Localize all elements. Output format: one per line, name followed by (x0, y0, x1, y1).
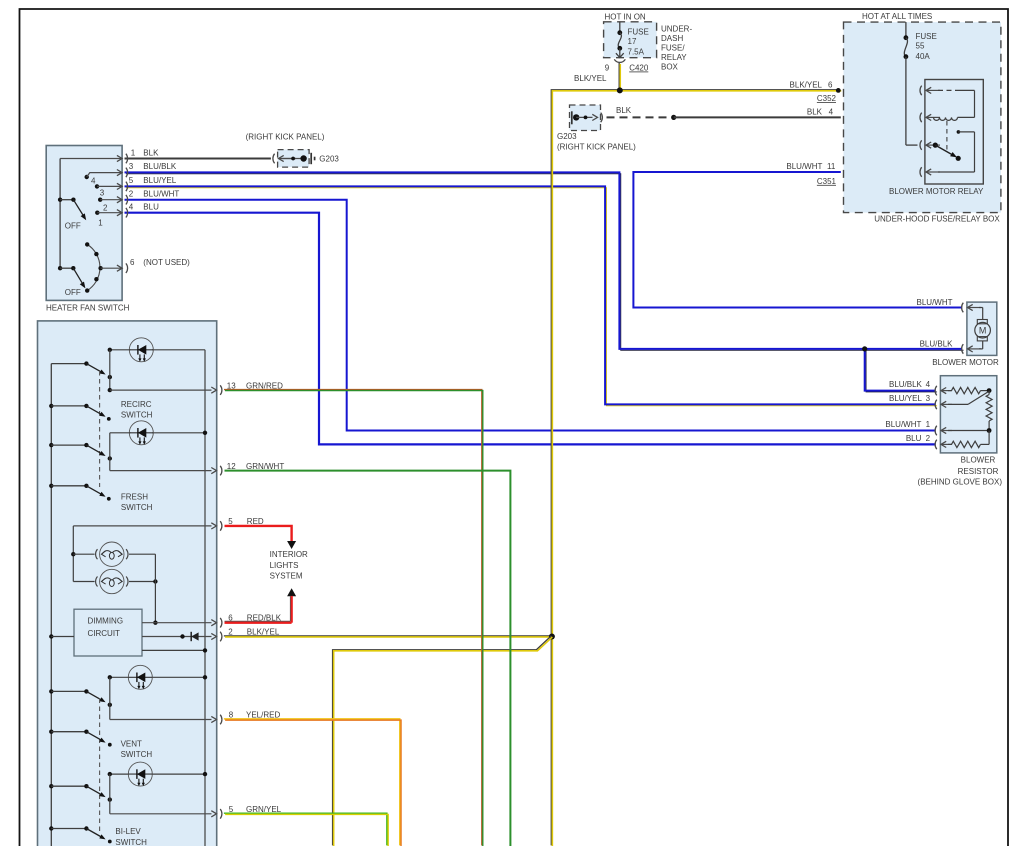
svg-text:SYSTEM: SYSTEM (270, 571, 303, 580)
VENT link vertical (109, 677, 111, 719)
svg-text:RECIRC: RECIRC (121, 400, 152, 409)
dimming out pin2 with diode (142, 636, 212, 638)
panel pin connector (220, 618, 222, 628)
switch wiper arm upper (73, 200, 84, 217)
LED D2 (129, 421, 153, 445)
svg-text:INTERIOR: INTERIOR (270, 550, 308, 559)
svg-text:BLOWER MOTOR: BLOWER MOTOR (932, 358, 999, 367)
svg-text:4: 4 (91, 177, 96, 186)
blower resistor box (940, 376, 996, 453)
svg-text:RED: RED (247, 517, 264, 526)
svg-text:(BEHIND GLOVE BOX): (BEHIND GLOVE BOX) (918, 478, 1003, 487)
relay row2 connector (920, 113, 922, 123)
connector (126, 208, 128, 218)
svg-text:GRN/RED: GRN/RED (246, 381, 283, 390)
connector after G203 (601, 113, 603, 123)
ground G203 wire (282, 158, 304, 160)
lamp L2 (96, 569, 128, 593)
relay row1 connector (920, 86, 922, 96)
svg-text:BLK/YEL: BLK/YEL (574, 74, 607, 83)
wire BLU/BLK branch to resistor pin4 (866, 350, 937, 392)
svg-text:5: 5 (229, 805, 234, 814)
svg-text:5: 5 (129, 176, 134, 185)
RECIRC link vertical (109, 350, 111, 390)
svg-text:BLU: BLU (143, 203, 159, 212)
relay row4 connector (920, 167, 922, 177)
svg-text:(RIGHT KICK PANEL): (RIGHT KICK PANEL) (246, 133, 325, 142)
svg-text:FRESH: FRESH (121, 493, 148, 502)
svg-text:12: 12 (227, 462, 236, 471)
svg-text:C351: C351 (817, 177, 837, 186)
lamp L1 (96, 542, 128, 566)
fuse 17 symbol (619, 22, 621, 33)
BI-LEV switch gang2 (49, 826, 53, 830)
connector (126, 182, 128, 192)
svg-text:HOT IN ON: HOT IN ON (605, 12, 646, 21)
blower motor box (967, 302, 997, 355)
lamp circuit left vertical (72, 526, 74, 582)
wire BLU/WHT pin2 to resistor pin1 (125, 200, 936, 431)
svg-text:40A: 40A (916, 52, 931, 61)
svg-text:5: 5 (228, 517, 233, 526)
svg-text:2: 2 (228, 628, 233, 637)
svg-text:4: 4 (926, 380, 931, 389)
svg-text:YEL/RED: YEL/RED (246, 711, 280, 720)
heater control panel box (38, 321, 217, 846)
wire BLK/YEL diagonal branch (333, 636, 552, 846)
pin5 GRN/YEL line (110, 813, 212, 815)
wire BLK/YEL fuse17 down (618, 63, 620, 90)
svg-text:11: 11 (827, 162, 836, 171)
fuse 55 symbol (905, 22, 907, 38)
wire GRN/RED pin13 (224, 390, 482, 846)
under-dash fuse/relay box (fuse 17) (604, 22, 657, 58)
VENT switch gang2 (49, 730, 53, 734)
svg-text:OFF: OFF (65, 221, 81, 230)
FRESH link vertical (109, 433, 111, 471)
svg-text:9: 9 (605, 64, 610, 73)
svg-text:C420: C420 (629, 64, 649, 73)
panel pin connector (220, 632, 222, 642)
svg-text:OFF: OFF (65, 288, 81, 297)
blower motor internal wiring (979, 307, 983, 309)
switch wiper arm lower (73, 268, 83, 285)
svg-text:HEATER FAN SWITCH: HEATER FAN SWITCH (46, 303, 130, 312)
svg-text:UNDER-HOOD FUSE/RELAY BOX: UNDER-HOOD FUSE/RELAY BOX (874, 215, 1000, 224)
wire BLK to relay pin4 (674, 116, 841, 118)
svg-text:4: 4 (129, 203, 134, 212)
LED D4 (128, 762, 152, 786)
svg-text:CIRCUIT: CIRCUIT (88, 629, 121, 638)
lamp L1 circuit (73, 553, 94, 555)
svg-text:SWITCH: SWITCH (121, 750, 153, 759)
svg-text:1: 1 (926, 420, 931, 429)
svg-text:FUSE: FUSE (916, 32, 937, 41)
junction BLK/YEL lower (549, 634, 555, 640)
VENT switch gang1 (49, 689, 53, 693)
panel pin connector (220, 809, 222, 819)
arrow from interior lights system (287, 588, 296, 596)
wire BLU/YEL pin5 (126, 188, 937, 406)
svg-text:BLU/BLK: BLU/BLK (920, 339, 954, 348)
svg-text:BLK: BLK (143, 148, 159, 157)
svg-text:1: 1 (131, 148, 136, 157)
switch contact 1 (95, 211, 99, 215)
resistor connectors (935, 386, 937, 396)
connector C420 cup (614, 59, 625, 62)
svg-text:BLU/WHT: BLU/WHT (917, 298, 953, 307)
svg-text:BLK/YEL: BLK/YEL (790, 81, 823, 90)
svg-text:BLOWER: BLOWER (961, 455, 996, 464)
connector (126, 195, 128, 205)
svg-text:8: 8 (229, 711, 234, 720)
svg-text:BLU/WHT: BLU/WHT (786, 162, 822, 171)
svg-text:FUSE/: FUSE/ (661, 44, 685, 53)
svg-text:1: 1 (98, 219, 103, 228)
panel right vertical (204, 350, 206, 846)
svg-text:GRN/YEL: GRN/YEL (246, 805, 282, 814)
svg-text:G203: G203 (557, 132, 577, 141)
bus to dimming circuit (49, 634, 53, 638)
svg-text:HOT AT ALL TIMES: HOT AT ALL TIMES (862, 12, 932, 21)
svg-text:BLU: BLU (906, 434, 922, 443)
svg-text:BI-LEV: BI-LEV (115, 827, 141, 836)
ground G203 box (570, 105, 601, 131)
pin12 line (110, 470, 212, 472)
svg-text:6: 6 (828, 81, 833, 90)
switch wiper link upper (60, 199, 73, 201)
fuse 55 feed to relay (906, 144, 918, 146)
pin8 line (110, 719, 212, 721)
svg-text:SWITCH: SWITCH (121, 411, 153, 420)
wire YEL/RED pin8 (224, 719, 400, 846)
svg-text:13: 13 (227, 381, 236, 390)
BI-LEV switch gang1 (49, 784, 53, 788)
junction BLK/YEL top (617, 87, 623, 93)
blower motor relay box (925, 80, 983, 185)
wire RED pin5 to interior lights (225, 526, 292, 542)
resistor row3 link (948, 403, 968, 405)
switch common dot upper (58, 198, 62, 202)
panel pin connector (220, 466, 222, 476)
svg-text:G203: G203 (319, 154, 339, 163)
wire GRN/YEL pin5 lower (224, 813, 387, 845)
connector (126, 168, 128, 178)
junction dot BLK/YEL at relay wire (836, 88, 841, 93)
svg-text:BLK: BLK (616, 106, 632, 115)
switch feed line pin1 (60, 158, 122, 160)
dimming circuit box (74, 609, 142, 656)
junction BLK (671, 115, 676, 120)
relay contact (957, 130, 961, 134)
switch bus vertical (59, 159, 61, 269)
svg-text:LIGHTS: LIGHTS (270, 561, 299, 570)
RECIRC switch gang1 (51, 363, 86, 365)
svg-text:BLU/BLK: BLU/BLK (889, 380, 923, 389)
LED D3 (128, 665, 152, 689)
svg-text:FUSE: FUSE (628, 28, 649, 37)
LED D3 circuit (110, 676, 129, 678)
svg-text:4: 4 (829, 108, 834, 117)
relay armature (933, 143, 938, 148)
panel bus vertical (50, 364, 52, 846)
switch contact arc lower (87, 244, 100, 290)
wire BLU/WHT relay pin11 to blower motor (633, 172, 962, 308)
LED D1 circuit (110, 349, 131, 351)
switch contact 2 (98, 198, 102, 202)
svg-text:2: 2 (926, 434, 931, 443)
switch contact 4 (85, 175, 89, 179)
under-hood fuse/relay box (844, 22, 1001, 213)
svg-text:SWITCH: SWITCH (115, 838, 147, 846)
svg-text:2: 2 (103, 204, 108, 213)
wire BLK/YEL left branch down page (551, 90, 619, 846)
dimming out pin6 (142, 622, 212, 624)
svg-text:(RIGHT KICK PANEL): (RIGHT KICK PANEL) (557, 142, 636, 151)
wire BLK/YEL junction to relay pin6 (619, 89, 840, 91)
resistor R3 row2 (948, 443, 952, 445)
svg-text:RESISTOR: RESISTOR (958, 467, 999, 476)
svg-text:BLU/YEL: BLU/YEL (143, 176, 176, 185)
svg-text:BLU/WHT: BLU/WHT (143, 190, 179, 199)
relay mechanical link (946, 121, 948, 150)
svg-text:BLU/BLK: BLU/BLK (143, 162, 177, 171)
mech link RECIRC/FRESH (99, 371, 101, 487)
svg-text:BLU/YEL: BLU/YEL (889, 394, 922, 403)
svg-text:BOX: BOX (661, 63, 679, 72)
ground G203 box (pin 1) (278, 150, 310, 168)
FRESH switch gang2 (49, 484, 53, 488)
resistor row1 link (948, 430, 989, 432)
lamp L2 circuit (73, 581, 94, 583)
switch lower contact dots (85, 242, 89, 246)
svg-text:DIMMING: DIMMING (88, 616, 124, 625)
dimming out lower (142, 649, 205, 651)
switch common dot lower (58, 266, 62, 270)
connector (126, 154, 128, 164)
motor M1 brushes (977, 320, 987, 324)
ground G203 bar (310, 153, 312, 164)
svg-text:6: 6 (228, 613, 233, 622)
svg-text:UNDER-: UNDER- (661, 25, 692, 34)
svg-text:3: 3 (926, 394, 931, 403)
BI-LEV link vertical (109, 774, 111, 814)
wire RED/BLK pin6 (290, 596, 292, 623)
svg-text:2: 2 (129, 190, 134, 199)
connector at G203 (273, 154, 275, 164)
svg-text:3: 3 (129, 162, 134, 171)
svg-text:VENT: VENT (121, 739, 142, 748)
ground G203 symbol (571, 111, 573, 124)
RECIRC switch gang2 (49, 404, 53, 408)
LED D1 (129, 338, 153, 362)
svg-text:BLOWER MOTOR RELAY: BLOWER MOTOR RELAY (889, 187, 984, 196)
svg-text:7.5A: 7.5A (628, 48, 645, 57)
switch wiper link lower (60, 267, 73, 269)
svg-text:55: 55 (916, 42, 925, 51)
ground G203 arrow (279, 158, 296, 160)
wire BLK/YEL to control panel pin2 (224, 635, 551, 637)
wire GRN/WHT pin12 (225, 471, 511, 846)
FRESH switch gang1 (49, 443, 53, 447)
wire BLU pin4 to resistor pin2 (125, 213, 936, 445)
panel pin connector (220, 385, 222, 395)
wire BLU/BLK pin3 (126, 174, 964, 351)
mech link VENT/BI-LEV (99, 699, 101, 834)
heater fan switch box (46, 146, 122, 301)
panel pin connector (220, 715, 222, 725)
panel pin connector (220, 521, 222, 531)
connector (126, 263, 128, 273)
svg-text:RED/BLK: RED/BLK (247, 613, 282, 622)
svg-text:C352: C352 (817, 94, 837, 103)
wire BLK pin1 to G203 (125, 158, 271, 160)
svg-text:3: 3 (100, 189, 105, 198)
svg-text:(NOT USED): (NOT USED) (143, 258, 190, 267)
switch contact 3 (95, 184, 99, 188)
svg-text:BLK/YEL: BLK/YEL (247, 628, 280, 637)
LED D2 circuit (110, 432, 131, 434)
LED D4 circuit (110, 773, 129, 775)
svg-text:M: M (979, 326, 987, 336)
resistor R1 row4 (948, 390, 952, 392)
wire BLK ground G203 dashed (607, 116, 669, 118)
svg-text:BLK: BLK (807, 108, 823, 117)
svg-text:GRN/WHT: GRN/WHT (246, 462, 284, 471)
relay coil (934, 117, 958, 120)
pin5 RED line (73, 525, 211, 527)
svg-text:SWITCH: SWITCH (121, 503, 153, 512)
svg-text:17: 17 (628, 37, 637, 46)
blower motor connectors (962, 303, 964, 313)
resistor vertical R2 (988, 391, 990, 395)
arrow into interior lights system (287, 541, 296, 549)
switch pin6 line (101, 267, 122, 269)
relay row3 connector (920, 140, 922, 150)
svg-text:6: 6 (130, 258, 135, 267)
relay coil circuit top (938, 89, 957, 91)
svg-text:BLU/WHT: BLU/WHT (885, 420, 921, 429)
svg-text:RELAY: RELAY (661, 53, 687, 62)
motor M1 circle (975, 322, 991, 338)
pin13 line (110, 389, 212, 391)
lamp circuit right vertical (154, 554, 156, 623)
svg-text:DASH: DASH (661, 34, 683, 43)
junction BLU/BLK (862, 346, 867, 351)
